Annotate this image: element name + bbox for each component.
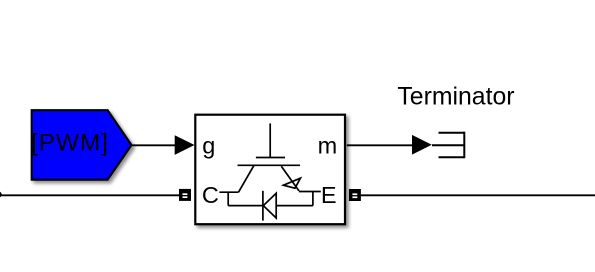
emitter diagonal <box>281 166 299 191</box>
arrowhead into terminator <box>412 135 432 155</box>
svg-text:g: g <box>202 133 215 159</box>
emitter arrow (open) <box>283 178 300 188</box>
unconnected line end dot <box>0 191 2 197</box>
gate plate <box>256 157 285 159</box>
diode loop bottom line <box>228 205 313 207</box>
E stub line <box>299 191 321 193</box>
left drop to diode loop <box>227 192 229 205</box>
anti-parallel diode cathode bar <box>262 191 264 221</box>
IGBT block body (outline) <box>195 115 345 225</box>
C stub line <box>219 191 238 193</box>
collector diagonal <box>239 165 255 192</box>
E port connector square <box>349 189 361 201</box>
svg-text:E: E <box>321 182 337 208</box>
svg-text:C: C <box>202 182 219 208</box>
svg-text:[PWM]: [PWM] <box>31 130 109 157</box>
From block [PWM] (goto/from tag pentagon) <box>32 110 132 180</box>
wire: left conserving line to C port <box>0 194 179 196</box>
wire: IGBT m port to Terminator <box>347 144 413 146</box>
anti-parallel diode triangle <box>263 193 276 218</box>
arrowhead into g port <box>175 135 195 155</box>
channel line <box>238 164 301 166</box>
wire: [PWM] tag to IGBT gate port g <box>132 144 177 146</box>
svg-text:Terminator: Terminator <box>397 83 514 110</box>
right riser of diode loop <box>312 192 314 206</box>
wire: E port conserving line to right edge <box>361 194 595 196</box>
gate vertical lead <box>269 123 271 157</box>
C port connector square <box>179 189 191 201</box>
Terminator block icon <box>432 132 464 159</box>
IGBT transistor icon <box>219 123 320 220</box>
svg-text:m: m <box>318 133 338 159</box>
